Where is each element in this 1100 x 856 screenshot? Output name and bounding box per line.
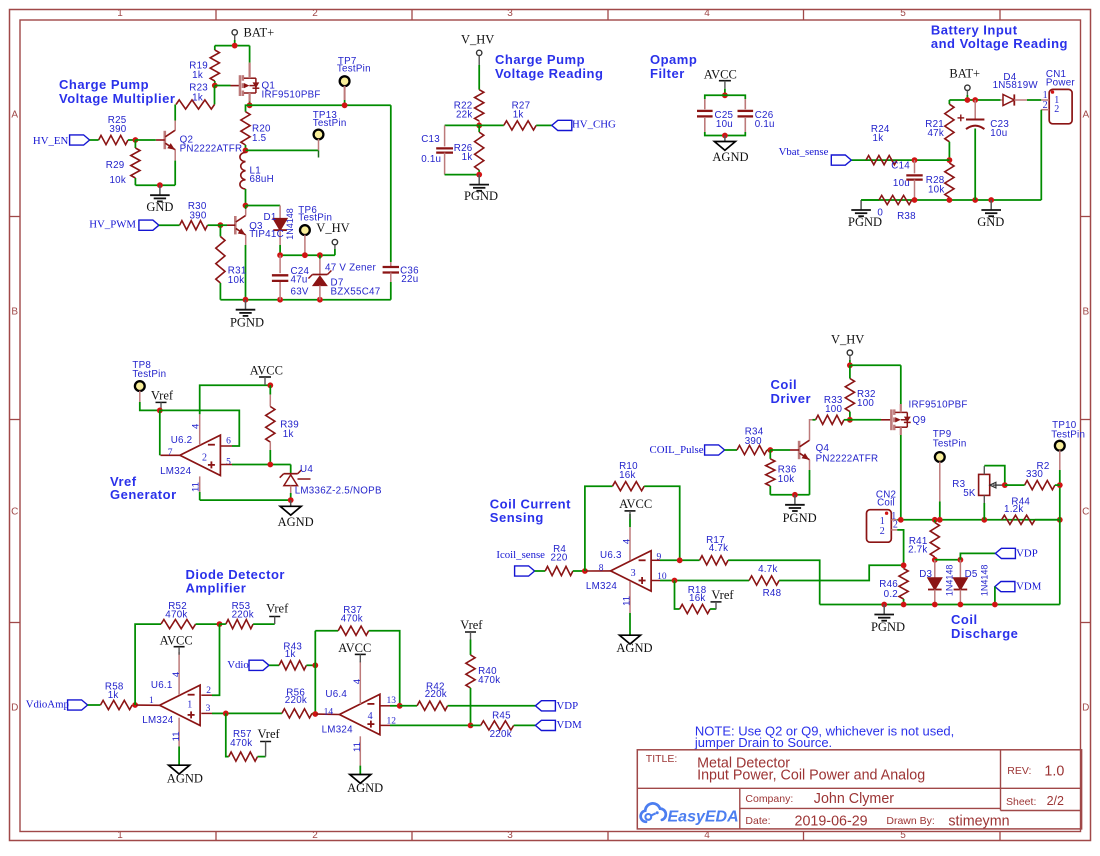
annotation: Vref Generator title xyxy=(110,474,177,502)
resistor R23 xyxy=(176,83,215,110)
svg-text:Vref: Vref xyxy=(258,727,281,741)
wire pin12 row xyxy=(380,724,471,726)
svg-text:16k: 16k xyxy=(689,593,706,604)
svg-text:1k: 1k xyxy=(108,690,119,701)
svg-text:TestPin: TestPin xyxy=(1051,430,1085,441)
resistor R41 2.7k xyxy=(908,520,939,560)
svg-text:2.7k: 2.7k xyxy=(908,545,928,556)
resistor R52 470k xyxy=(161,601,220,629)
svg-text:10u: 10u xyxy=(716,119,733,130)
capacitor C13 0.1u xyxy=(421,125,453,174)
svg-text:HV_EN: HV_EN xyxy=(33,135,69,147)
svg-text:5K: 5K xyxy=(963,488,976,499)
svg-text:5: 5 xyxy=(900,830,906,841)
junction R26 bottom xyxy=(476,172,482,178)
junction Q9 drain rail xyxy=(898,517,904,523)
junction D5 top node xyxy=(958,557,964,563)
svg-text:16k: 16k xyxy=(619,470,636,481)
ground AGND (U6.4) xyxy=(347,775,383,796)
svg-text:BAT+: BAT+ xyxy=(949,67,980,81)
ground PGND (charge pump) xyxy=(230,300,264,330)
svg-text:4: 4 xyxy=(622,539,633,544)
svg-text:D: D xyxy=(1082,703,1089,714)
ground AGND (U6.1) xyxy=(167,765,203,785)
svg-text:3: 3 xyxy=(206,704,211,714)
ground PGND (battery) xyxy=(848,200,882,229)
svg-text:Driver: Driver xyxy=(771,391,812,406)
junction GND battery xyxy=(988,197,994,203)
net flag VDP (discharge) xyxy=(995,547,1037,559)
svg-text:47k: 47k xyxy=(927,128,944,139)
junction Q3 base node xyxy=(218,222,224,228)
resistor R38 0 xyxy=(861,195,916,221)
svg-text:U6.2: U6.2 xyxy=(171,435,193,446)
resistor R33 100 xyxy=(813,395,850,425)
svg-text:10k: 10k xyxy=(778,474,795,485)
svg-text:LM324: LM324 xyxy=(142,715,174,726)
svg-text:2019-06-29: 2019-06-29 xyxy=(795,813,868,829)
svg-text:11: 11 xyxy=(191,482,202,492)
wire right column xyxy=(1059,485,1061,604)
resistor R46 0.2 xyxy=(879,565,908,604)
svg-text:1k: 1k xyxy=(513,110,524,121)
svg-text:V_HV: V_HV xyxy=(461,33,494,47)
junction R46 top xyxy=(901,562,907,568)
ground PGND (reading) xyxy=(464,175,498,204)
resistor R44 1.2k xyxy=(1002,497,1060,525)
svg-text:0.2: 0.2 xyxy=(884,589,898,600)
svg-text:V_HV: V_HV xyxy=(831,332,864,346)
svg-text:LM324: LM324 xyxy=(160,466,192,477)
transistor Q2 PN2222ATFR xyxy=(156,105,243,186)
power pin V_HV (reading) xyxy=(461,33,494,65)
junction R20/L1 node xyxy=(243,148,249,154)
ground AGND (vref gen) xyxy=(278,500,314,529)
junction R19/R23/gate node xyxy=(212,83,218,89)
power pin V_HV (coil driver) xyxy=(831,332,864,365)
power Vref (R53) xyxy=(266,602,289,624)
junction D3 bottom xyxy=(932,602,938,608)
svg-text:COIL_Pulse: COIL_Pulse xyxy=(650,444,704,456)
svg-text:R45: R45 xyxy=(492,711,511,722)
junction pin10 node xyxy=(672,578,678,584)
wire pin13 row xyxy=(380,705,400,707)
svg-text:1k: 1k xyxy=(192,92,203,103)
junction D7 rail xyxy=(317,297,323,303)
junction TP9 rail xyxy=(937,517,943,523)
svg-text:1k: 1k xyxy=(462,152,473,163)
junction R41/D3 node xyxy=(932,557,938,563)
svg-text:8: 8 xyxy=(599,563,604,573)
svg-text:PGND: PGND xyxy=(230,316,264,330)
resistor R31 xyxy=(216,225,247,300)
net flag Vbat_sense xyxy=(779,146,852,165)
svg-text:AVCC: AVCC xyxy=(338,641,371,655)
op-amp U6.1 LM324 xyxy=(136,652,211,765)
svg-text:Generator: Generator xyxy=(110,487,177,502)
wire CN2 pin2 branch xyxy=(897,530,903,565)
svg-text:D3: D3 xyxy=(919,569,932,580)
svg-text:Discharge: Discharge xyxy=(951,626,1018,641)
resistor R24 1k xyxy=(866,124,897,165)
svg-text:AVCC: AVCC xyxy=(160,633,193,647)
junction R3 rail xyxy=(981,517,987,523)
svg-text:390: 390 xyxy=(745,436,762,447)
svg-text:D: D xyxy=(11,703,18,714)
svg-text:PGND: PGND xyxy=(783,511,817,525)
wire wiper to R2 xyxy=(1005,484,1020,486)
svg-text:PGND: PGND xyxy=(871,620,905,634)
junction U6.1 input node xyxy=(132,702,138,708)
net flag VDP (amp) xyxy=(535,700,578,712)
svg-text:47u: 47u xyxy=(291,275,308,286)
junction C24 rail xyxy=(277,297,283,303)
svg-text:220k: 220k xyxy=(285,695,307,706)
svg-text:3: 3 xyxy=(507,830,513,841)
svg-text:2: 2 xyxy=(202,452,207,463)
junction pin5/R39 node xyxy=(267,462,273,468)
svg-text:Vref: Vref xyxy=(266,602,289,616)
wire U6.2 bottom xyxy=(200,499,291,501)
svg-text:stimeymn: stimeymn xyxy=(948,813,1009,829)
testpin TP6 xyxy=(298,205,332,255)
resistor R27 xyxy=(504,101,552,131)
svg-text:Voltage Multiplier: Voltage Multiplier xyxy=(59,91,175,106)
junction TP7 node xyxy=(342,102,348,108)
svg-text:1N4148: 1N4148 xyxy=(285,208,295,240)
ground AGND (U6.3) xyxy=(616,635,652,655)
resistor R26 xyxy=(454,125,484,174)
svg-text:REV:: REV: xyxy=(1007,765,1031,777)
diode D4 1N5819W xyxy=(993,72,1042,106)
wire gate Q9 xyxy=(850,419,891,421)
wire R52 loop xyxy=(135,624,161,705)
svg-text:Vref: Vref xyxy=(460,618,483,632)
svg-text:5: 5 xyxy=(226,457,231,467)
svg-text:220k: 220k xyxy=(232,610,254,621)
svg-text:0: 0 xyxy=(877,207,883,218)
resistor R29 xyxy=(106,140,140,186)
op-amp U6.2 LM324 xyxy=(160,385,270,500)
svg-text:10k: 10k xyxy=(228,275,245,286)
junction R28 bottom xyxy=(947,197,953,203)
svg-text:390: 390 xyxy=(109,124,126,135)
power AVCC (vref gen) xyxy=(250,364,283,385)
resistor R45 220k xyxy=(471,711,536,741)
transistor Q1 IRF9510PBF xyxy=(240,46,321,106)
svg-text:1k: 1k xyxy=(283,429,294,440)
svg-text:1N4148: 1N4148 xyxy=(944,565,954,597)
annotation: Opamp Filter title xyxy=(650,52,697,81)
junction R3 wiper node xyxy=(1002,482,1008,488)
svg-text:IRF9510PBF: IRF9510PBF xyxy=(909,400,968,411)
power Vref (R57) xyxy=(258,727,281,757)
wire battery bottom rail xyxy=(861,199,1041,201)
resistor R32 100 xyxy=(845,365,875,420)
wire V_HV mid rail xyxy=(280,254,335,256)
junction pin9 node xyxy=(677,557,683,563)
svg-text:TITLE:: TITLE: xyxy=(646,753,678,765)
svg-text:14: 14 xyxy=(324,708,334,718)
annotation: Charge Pump Voltage Multiplier title xyxy=(59,77,175,106)
resistor R36 10k xyxy=(766,450,797,495)
net flag Vdio xyxy=(227,659,279,671)
svg-text:1k: 1k xyxy=(192,70,203,81)
junction U6.4 input node xyxy=(312,711,318,717)
annotation: Coil Discharge title xyxy=(951,612,1018,641)
svg-text:AVCC: AVCC xyxy=(704,67,737,81)
junction D7 top node xyxy=(317,252,323,258)
svg-text:Vdio: Vdio xyxy=(227,659,249,671)
svg-text:U4: U4 xyxy=(300,464,313,475)
junction U4 bottom xyxy=(288,497,294,503)
junction D1/C24 node xyxy=(277,252,283,258)
svg-text:LM336Z-2.5/NOPB: LM336Z-2.5/NOPB xyxy=(295,486,382,497)
junction R41 rail xyxy=(932,517,938,523)
svg-text:1.0: 1.0 xyxy=(1044,763,1064,779)
junction C23 top node xyxy=(972,97,978,103)
svg-text:4: 4 xyxy=(352,679,363,684)
capacitor C26 0.1u xyxy=(738,99,775,132)
resistor R40 470k xyxy=(466,640,500,726)
ground GND (Q2) xyxy=(146,185,173,214)
wire pin10 row xyxy=(651,580,749,582)
wire R18 branch xyxy=(675,581,680,610)
svg-text:VDM: VDM xyxy=(557,719,583,731)
svg-text:BZX55C47: BZX55C47 xyxy=(331,287,381,298)
wire base Q4 xyxy=(770,449,790,451)
wire pin5 row xyxy=(221,464,291,466)
net flag HV_PWM xyxy=(89,219,179,231)
svg-text:AGND: AGND xyxy=(347,781,383,795)
svg-text:C14: C14 xyxy=(891,161,910,172)
resistor R17 4.7k xyxy=(700,535,729,565)
annotation: Coil Current Sensing title xyxy=(490,497,571,525)
svg-text:390: 390 xyxy=(189,210,206,221)
svg-text:Vref: Vref xyxy=(151,388,174,402)
svg-text:Company:: Company: xyxy=(745,793,793,805)
svg-text:220: 220 xyxy=(551,553,568,564)
net flag COIL_Pulse xyxy=(650,444,738,456)
wire pin9 row xyxy=(651,559,700,561)
svg-text:4: 4 xyxy=(704,8,710,19)
wire R17 to ground rail xyxy=(728,560,820,604)
junction AVCC filter xyxy=(722,92,728,98)
svg-text:4.7k: 4.7k xyxy=(758,564,778,575)
wire Vbat sense row xyxy=(851,159,949,161)
svg-text:Input Power, Coil Power and An: Input Power, Coil Power and Analog xyxy=(697,768,925,784)
ground AGND (filter) xyxy=(712,136,748,165)
resistor R42 220k xyxy=(400,682,536,711)
junction TP6 node xyxy=(302,252,308,258)
EasyEDA logo xyxy=(641,803,739,825)
svg-text:EasyEDA: EasyEDA xyxy=(668,809,739,826)
svg-text:Drawn By:: Drawn By: xyxy=(886,815,934,827)
junction BAT+ node xyxy=(965,97,971,103)
svg-text:470k: 470k xyxy=(341,614,363,625)
junction R25/R29 node xyxy=(133,137,139,143)
power AVCC (U6.4) xyxy=(338,641,371,662)
resistor R39 1k xyxy=(266,385,299,464)
wire discharge ground rail xyxy=(820,604,1060,606)
svg-text:11: 11 xyxy=(171,731,182,741)
junction BAT+ rail xyxy=(232,43,238,49)
wire V_HV to Q9 source xyxy=(850,364,901,366)
resistor R19 xyxy=(189,46,219,86)
resistor R53 220k xyxy=(220,601,275,629)
svg-text:Amplifier: Amplifier xyxy=(186,581,247,596)
capacitor C24 47u 63V xyxy=(272,255,310,300)
svg-text:47 V Zener: 47 V Zener xyxy=(325,262,376,273)
op-amp U6.4 LM324 xyxy=(316,661,396,775)
wire VDP branch xyxy=(960,553,995,559)
connector CN1 Power xyxy=(1041,69,1075,200)
svg-text:63V: 63V xyxy=(291,287,309,298)
junction D5 bottom xyxy=(958,602,964,608)
annotation: Diode Detector Amplifier title xyxy=(186,567,285,596)
diode D1 1N4148 xyxy=(264,206,295,256)
wire D3-D5 row xyxy=(935,559,961,561)
junction C14 top node xyxy=(912,157,918,163)
connector CN2 Coil xyxy=(867,489,898,542)
junction V_HV driver node xyxy=(847,362,853,368)
svg-text:470k: 470k xyxy=(230,738,252,749)
svg-text:jumper Drain to Source.: jumper Drain to Source. xyxy=(694,735,832,750)
resistor R28 10k xyxy=(926,163,954,200)
svg-text:GND: GND xyxy=(146,200,173,214)
capacitor C36 22u xyxy=(383,105,420,299)
resistor R30 xyxy=(180,201,221,230)
svg-text:TIP41C: TIP41C xyxy=(249,229,284,240)
svg-text:1: 1 xyxy=(187,700,192,711)
svg-text:100: 100 xyxy=(825,404,842,415)
annotation: Charge Pump Voltage Reading title xyxy=(495,52,603,81)
svg-text:10u: 10u xyxy=(893,178,910,189)
svg-text:Sheet:: Sheet: xyxy=(1006,796,1036,808)
svg-text:U6.4: U6.4 xyxy=(325,689,347,700)
svg-text:A: A xyxy=(11,110,18,121)
wire gate node xyxy=(215,86,240,105)
power AVCC (filter) xyxy=(704,67,737,95)
junction R46 bottom xyxy=(901,602,907,608)
svg-text:and Voltage Reading: and Voltage Reading xyxy=(931,36,1068,51)
svg-text:U6.1: U6.1 xyxy=(151,680,173,691)
wire Vref feedback loop xyxy=(160,410,240,446)
junction Q1 drain xyxy=(247,102,253,108)
svg-text:1N5819W: 1N5819W xyxy=(993,80,1039,91)
svg-text:AGND: AGND xyxy=(616,641,652,655)
svg-text:6: 6 xyxy=(226,436,231,446)
svg-text:1: 1 xyxy=(149,696,154,706)
svg-text:Q4: Q4 xyxy=(816,443,830,454)
junction pin12/R40 node xyxy=(468,723,474,729)
svg-text:B: B xyxy=(1082,307,1089,318)
svg-text:2: 2 xyxy=(880,526,885,537)
net flag Icoil_sense xyxy=(496,549,545,576)
junction PGND driver xyxy=(792,492,798,498)
wire C13 bottom xyxy=(445,174,480,176)
svg-text:10k: 10k xyxy=(109,175,126,186)
svg-text:AGND: AGND xyxy=(167,771,203,785)
wire Q2 emitter rail xyxy=(135,184,175,186)
resistor R20 xyxy=(241,105,271,150)
wire BAT+ rail xyxy=(215,40,250,46)
svg-text:TestPin: TestPin xyxy=(313,118,347,129)
svg-text:C13: C13 xyxy=(421,134,440,145)
annotation: NOTE text xyxy=(694,724,954,751)
resistor R22 xyxy=(454,65,484,125)
wire HV_PWM to base xyxy=(220,224,227,226)
svg-text:LM324: LM324 xyxy=(322,725,354,736)
svg-text:470k: 470k xyxy=(478,675,500,686)
junction AGND filter xyxy=(722,133,728,139)
resistor R37 470k xyxy=(315,605,399,706)
wire to D1 xyxy=(246,205,281,207)
power pin BAT+ (charge pump) xyxy=(232,26,274,40)
diode D3 1N4148 xyxy=(919,560,954,605)
svg-text:4: 4 xyxy=(368,711,373,722)
resistor R10 16k xyxy=(613,461,680,560)
title block xyxy=(637,750,1081,830)
wire R10 loop xyxy=(585,486,613,571)
resistor R34 390 xyxy=(737,427,770,455)
junction L1/Q3 collector xyxy=(243,203,249,209)
svg-text:1k: 1k xyxy=(285,649,296,660)
net flag VdioAmp xyxy=(26,699,101,711)
svg-text:2: 2 xyxy=(893,520,898,531)
svg-text:R48: R48 xyxy=(763,588,782,599)
junction AVCC R39 node xyxy=(267,382,273,388)
svg-text:0.1u: 0.1u xyxy=(755,119,775,130)
wire battery top rail xyxy=(949,99,1000,101)
wire pin3 row xyxy=(201,712,282,714)
svg-text:7: 7 xyxy=(168,448,173,458)
wire Q4 emitter rail xyxy=(770,494,809,496)
svg-text:TestPin: TestPin xyxy=(933,439,967,450)
power Vref (generator) xyxy=(151,388,174,410)
svg-text:22k: 22k xyxy=(456,110,473,121)
svg-text:1: 1 xyxy=(117,8,123,19)
svg-text:Vref: Vref xyxy=(711,588,734,602)
svg-text:John Clymer: John Clymer xyxy=(814,791,894,807)
svg-text:10u: 10u xyxy=(990,128,1007,139)
svg-text:220k: 220k xyxy=(425,689,447,700)
wire R48 to R46 top xyxy=(779,565,904,580)
ground GND (battery) xyxy=(977,200,1004,229)
svg-text:LM324: LM324 xyxy=(586,581,618,592)
power Vref (R18) xyxy=(711,588,735,609)
svg-text:4: 4 xyxy=(191,424,202,429)
svg-text:IRF9510PBF: IRF9510PBF xyxy=(262,90,321,101)
svg-text:3: 3 xyxy=(507,8,513,19)
annotation: Battery Input and Voltage Reading title xyxy=(931,23,1068,52)
junction TP10/R2 node xyxy=(1057,482,1063,488)
power AVCC (U6.1) xyxy=(160,633,193,654)
annotation: Coil Driver title xyxy=(771,377,812,406)
svg-text:470k: 470k xyxy=(165,610,187,621)
resistor R21 47k xyxy=(925,100,954,160)
svg-text:A: A xyxy=(1082,110,1089,121)
svg-text:10k: 10k xyxy=(928,185,945,196)
testpin TP10 xyxy=(1051,420,1085,485)
svg-text:V_HV: V_HV xyxy=(316,221,349,235)
junction pin3 node xyxy=(223,711,229,717)
wire base Q2 xyxy=(135,139,155,141)
wire charge pump ground rail xyxy=(220,299,390,301)
net flag HV_EN xyxy=(33,135,99,147)
svg-text:2: 2 xyxy=(312,830,318,841)
svg-text:11: 11 xyxy=(352,742,363,752)
